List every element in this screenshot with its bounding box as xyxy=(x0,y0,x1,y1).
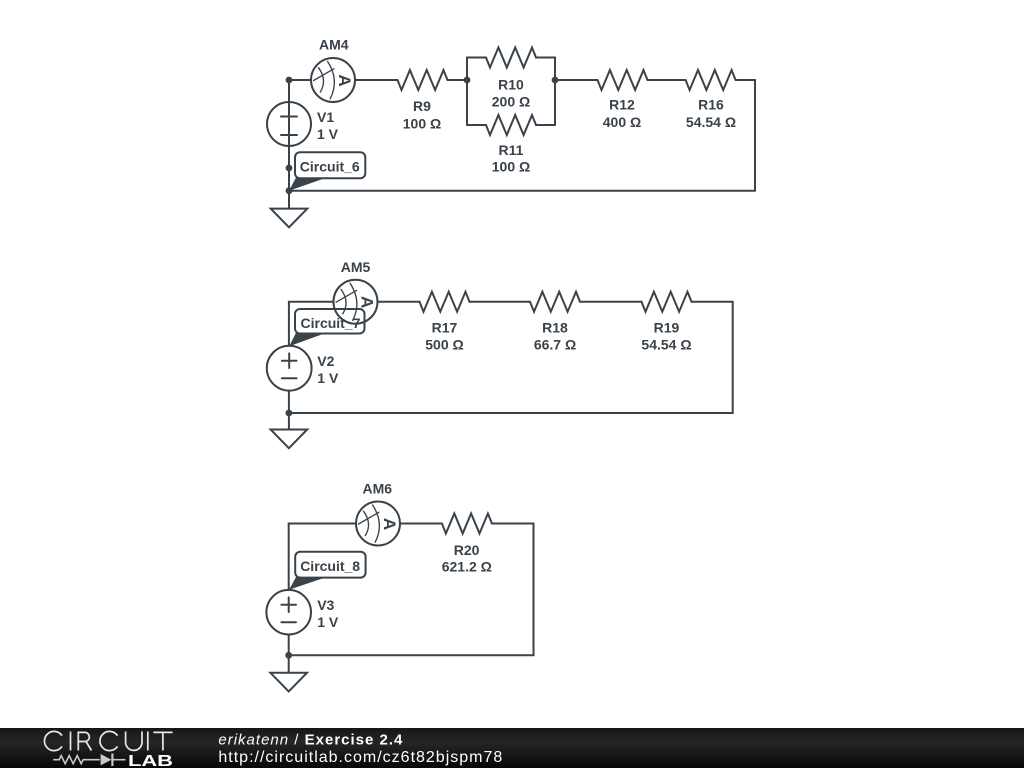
voltage source V3 xyxy=(266,590,338,635)
ground circuit 1 xyxy=(271,191,308,228)
voltage source V1 xyxy=(267,102,339,146)
svg-text:AM5: AM5 xyxy=(341,259,371,275)
resistor R16 xyxy=(686,70,736,130)
svg-text:Circuit_8: Circuit_8 xyxy=(300,558,360,574)
wire R19 to right vertical and bottom return xyxy=(289,302,733,413)
svg-text:R19: R19 xyxy=(654,320,680,336)
svg-text:A: A xyxy=(357,296,376,308)
wire top branch left xyxy=(467,57,486,59)
wire R16 to top-right corner xyxy=(736,79,755,81)
svg-text:1 V: 1 V xyxy=(317,126,339,142)
svg-text:R16: R16 xyxy=(698,97,724,113)
node V1 bottom junction xyxy=(286,187,293,194)
wire V1 top node to ammeter AM4 left xyxy=(289,79,311,81)
wire bottom return xyxy=(289,190,755,192)
svg-text:66.7 Ω: 66.7 Ω xyxy=(534,337,576,353)
svg-text:400 Ω: 400 Ω xyxy=(603,114,641,130)
ammeter AM5 xyxy=(334,259,378,324)
svg-text:erikatenn / Exercise 2.4: erikatenn / Exercise 2.4 xyxy=(218,731,403,748)
logo CIRCUIT wordmark xyxy=(44,731,172,750)
wire top branch right xyxy=(536,57,555,59)
wire AM4 right to R9 xyxy=(355,79,398,81)
svg-text:54.54 Ω: 54.54 Ω xyxy=(641,337,691,353)
footer bar xyxy=(0,728,1024,768)
wire bottom branch left xyxy=(467,124,486,126)
svg-text:R10: R10 xyxy=(498,77,524,93)
ammeter AM4 xyxy=(311,37,355,102)
wire top-left corner to AM6 xyxy=(289,524,356,590)
wire parallel left vertical xyxy=(466,58,468,126)
resistor R11 xyxy=(486,115,536,175)
voltage source V2 xyxy=(267,346,339,391)
svg-text:V3: V3 xyxy=(317,597,334,613)
svg-text:V2: V2 xyxy=(317,353,334,369)
svg-text:V1: V1 xyxy=(317,109,334,125)
node parallel left xyxy=(464,77,471,84)
wire AM5 right to R17 xyxy=(378,301,420,303)
svg-text:R11: R11 xyxy=(499,142,524,158)
logo resistor zigzag xyxy=(53,756,100,764)
svg-text:1 V: 1 V xyxy=(317,614,339,630)
ground circuit 2 xyxy=(271,413,308,448)
svg-text:R18: R18 xyxy=(542,320,568,336)
resistor R17 xyxy=(420,292,470,353)
svg-text:R17: R17 xyxy=(432,320,458,336)
net label Circuit_7 xyxy=(289,309,364,346)
wire parallel right node to R12 xyxy=(555,79,598,81)
wire parallel right vertical xyxy=(554,58,556,126)
resistor R19 xyxy=(641,292,691,353)
logo LAB xyxy=(128,753,173,768)
node net flag xyxy=(286,165,293,172)
wire R17 to R18 xyxy=(470,301,531,303)
node parallel right xyxy=(552,77,559,84)
svg-text:http://circuitlab.com/cz6t82bj: http://circuitlab.com/cz6t82bjspm78 xyxy=(218,749,503,766)
svg-text:R20: R20 xyxy=(454,542,480,558)
net label Circuit_6 xyxy=(289,152,365,191)
ground circuit 3 xyxy=(270,655,307,691)
svg-text:LAB: LAB xyxy=(128,753,173,768)
resistor R12 xyxy=(598,70,648,130)
node at V1 top xyxy=(286,77,293,84)
net label Circuit_8 xyxy=(289,552,366,590)
wire right vertical xyxy=(754,80,756,191)
svg-text:100 Ω: 100 Ω xyxy=(492,159,530,175)
svg-text:R9: R9 xyxy=(413,98,431,114)
svg-text:54.54 Ω: 54.54 Ω xyxy=(686,114,736,130)
wire V2 bottom xyxy=(288,391,290,413)
svg-text:100 Ω: 100 Ω xyxy=(403,115,441,131)
svg-text:Circuit_6: Circuit_6 xyxy=(300,159,360,175)
resistor R18 xyxy=(530,292,580,353)
svg-text:R12: R12 xyxy=(609,97,635,113)
node V3 bottom junction xyxy=(285,652,292,659)
svg-text:1 V: 1 V xyxy=(317,370,339,386)
svg-text:AM6: AM6 xyxy=(363,481,393,497)
resistor R9 xyxy=(398,70,448,131)
logo diode xyxy=(101,754,126,767)
wire R9 to parallel node xyxy=(448,79,468,81)
wire R20 to right vertical and bottom return xyxy=(289,524,534,656)
node V2 bottom junction xyxy=(286,410,293,417)
wire V3 bottom xyxy=(288,635,290,656)
svg-text:AM4: AM4 xyxy=(319,37,349,53)
svg-text:500 Ω: 500 Ω xyxy=(425,337,463,353)
svg-text:A: A xyxy=(335,74,354,86)
resistor R10 xyxy=(486,48,536,110)
wire R18 to R19 xyxy=(580,301,642,303)
footer url line xyxy=(218,749,503,766)
ammeter AM6 xyxy=(356,481,400,546)
svg-text:200 Ω: 200 Ω xyxy=(492,94,530,110)
wire top-left corner to AM5 xyxy=(289,302,334,346)
footer title line xyxy=(218,731,403,748)
wire V1 vertical through xyxy=(288,80,290,191)
svg-text:621.2 Ω: 621.2 Ω xyxy=(442,559,492,575)
wire bottom branch right xyxy=(536,124,555,126)
wire AM6 right to R20 xyxy=(400,523,442,525)
svg-text:A: A xyxy=(380,518,399,530)
resistor R20 xyxy=(442,514,492,575)
wire R12 to R16 xyxy=(648,79,686,81)
